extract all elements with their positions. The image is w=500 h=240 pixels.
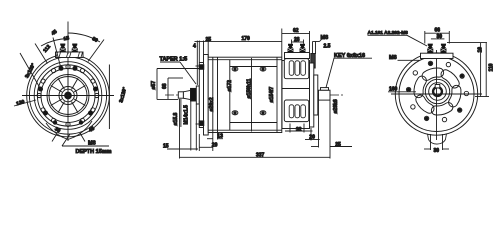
- svg-text:30: 30: [434, 148, 440, 154]
- bottom angle rays: [46, 121, 92, 142]
- svg-text:30: 30: [437, 34, 443, 40]
- bottom dim 337: [180, 99, 331, 159]
- vent slot 6: [441, 70, 459, 88]
- vent slot 1: [449, 85, 461, 107]
- svg-text:ø172: ø172: [227, 80, 233, 92]
- magnet line top: [230, 66, 277, 68]
- leader 3x120: [20, 53, 40, 88]
- svg-text:ø15.8: ø15.8: [173, 112, 179, 125]
- left view dark bolts: [38, 66, 98, 125]
- svg-text:2.5: 2.5: [324, 44, 331, 50]
- body shell inner bottom: [208, 129, 282, 131]
- leader 130: [14, 100, 36, 106]
- body internal vertical 3: [229, 60, 231, 131]
- brush housing section: [282, 61, 310, 129]
- flange bolt head top: [199, 65, 204, 70]
- bottom dim 29: [199, 134, 213, 151]
- top dimension row 4 25 170: [195, 29, 282, 86]
- terminal studs middle view: [288, 44, 306, 53]
- vent slot 4: [414, 76, 426, 98]
- svg-text:29: 29: [212, 143, 218, 149]
- terminal base middle view: [285, 53, 310, 59]
- svg-text:25: 25: [335, 142, 341, 148]
- left view bolt holes (12 small): [37, 65, 99, 127]
- vent slot 5: [422, 68, 444, 80]
- svg-text:20: 20: [309, 135, 315, 141]
- vent slot 3: [416, 95, 434, 113]
- svg-text:10: 10: [478, 47, 484, 53]
- bottom boss: [428, 134, 447, 145]
- left view spoke rim inner: [49, 77, 87, 115]
- dim 68 vertical: [168, 78, 183, 99]
- body internal vertical 1: [212, 57, 214, 132]
- svg-text:M14x1.5: M14x1.5: [184, 105, 190, 125]
- svg-text:M8: M8: [321, 35, 329, 41]
- output shaft: [319, 90, 331, 100]
- dim line ø154f7: [276, 58, 278, 133]
- dim ø57 vertical: [157, 69, 199, 100]
- svg-text:ø20k6: ø20k6: [333, 99, 339, 113]
- band box top: [284, 59, 309, 79]
- svg-text:28: 28: [294, 37, 300, 43]
- svg-text:32: 32: [296, 127, 302, 133]
- left view flange circle: [29, 57, 106, 134]
- svg-text:170: 170: [242, 36, 251, 42]
- vent windows bottom: [289, 105, 305, 118]
- dim 66: [425, 31, 450, 44]
- right terminal base: [421, 53, 454, 58]
- right view bolt holes: [406, 61, 468, 122]
- svg-text:ø20x2: ø20x2: [209, 97, 215, 111]
- left view centerlines: [22, 50, 114, 141]
- right terminal studs: [427, 44, 446, 54]
- right view hub dark ring: [433, 87, 442, 96]
- svg-text:ø154f7: ø154f7: [269, 86, 275, 102]
- M8 hatched hole: [311, 54, 315, 69]
- svg-text:M8: M8: [88, 141, 96, 147]
- main body outline: [208, 57, 282, 132]
- right view key: [435, 85, 440, 88]
- angle arc top-left: [41, 39, 68, 47]
- key: [321, 88, 329, 91]
- terminal block left view: [56, 52, 84, 58]
- brush housing mid line: [282, 88, 314, 90]
- flange bolt head bottom: [199, 121, 204, 126]
- svg-text:66: 66: [435, 28, 441, 34]
- right view center circles: [425, 79, 449, 103]
- left view spokes: [48, 76, 88, 116]
- M8 hole lines: [313, 39, 323, 54]
- vent slot 2: [431, 103, 453, 115]
- ext line ø15.8: [180, 99, 182, 127]
- flange spigot plate: [199, 63, 203, 128]
- svg-text:DEPTH 15mm: DEPTH 15mm: [76, 149, 112, 155]
- right tangent line: [108, 65, 110, 130]
- svg-text:25: 25: [206, 37, 212, 43]
- left view bolt ring outer: [37, 65, 98, 126]
- svg-text:ø57: ø57: [151, 81, 157, 90]
- band box bottom: [284, 100, 309, 122]
- svg-text:68: 68: [162, 83, 168, 89]
- svg-text:337: 337: [256, 152, 265, 158]
- magnet line bottom: [230, 122, 277, 124]
- bottom dim 13: [207, 133, 223, 152]
- left view pilot circle: [34, 62, 102, 130]
- shaft washer: [196, 86, 199, 104]
- right view inner ring: [399, 57, 474, 132]
- svg-text:15: 15: [163, 144, 169, 150]
- svg-text:110: 110: [489, 63, 495, 71]
- left view hub core: [65, 92, 72, 99]
- main centerline: [165, 94, 343, 96]
- svg-text:M8: M8: [389, 55, 397, 61]
- bottom dim 15: [167, 100, 198, 151]
- end bearing boss: [314, 75, 318, 115]
- svg-text:ø150h11: ø150h11: [247, 79, 253, 99]
- right view centerlines: [391, 50, 482, 140]
- terminal studs left view: [60, 44, 78, 53]
- left view hub circles: [59, 87, 77, 105]
- svg-text:13: 13: [217, 133, 223, 139]
- leader M8 depth: [62, 134, 109, 146]
- left shaft taper: [183, 90, 190, 99]
- end bell: [310, 63, 314, 127]
- vent windows top: [289, 61, 305, 76]
- body shell inner top: [208, 59, 282, 61]
- body internal vertical 2: [217, 57, 219, 132]
- dim 30: [431, 38, 445, 40]
- shaft nut dark: [191, 88, 197, 101]
- dim 10 vertical: [447, 43, 489, 97]
- angle arc top-right: [68, 33, 100, 42]
- right view outer circle: [395, 53, 477, 135]
- top dimension 62: [282, 31, 310, 52]
- bottom dim 32: [285, 124, 313, 133]
- left view outer circle: [27, 54, 110, 137]
- tie bolts: [232, 67, 266, 115]
- left view spoke rim outer: [47, 75, 89, 117]
- dim line ø150h11: [251, 58, 253, 132]
- terminal block hatch: [56, 52, 83, 57]
- bottom dim 20: [305, 128, 320, 141]
- svg-text:62: 62: [293, 28, 299, 34]
- angle dimension rays top: [35, 22, 104, 67]
- flange main plate: [204, 55, 209, 136]
- left view bolt ring inner: [41, 69, 95, 123]
- bottom dim 25 right: [311, 101, 352, 148]
- right view dark bolts: [407, 62, 464, 121]
- svg-text:4: 4: [193, 43, 196, 49]
- left shaft thread section: [178, 92, 183, 98]
- top dimension 28: [292, 40, 304, 44]
